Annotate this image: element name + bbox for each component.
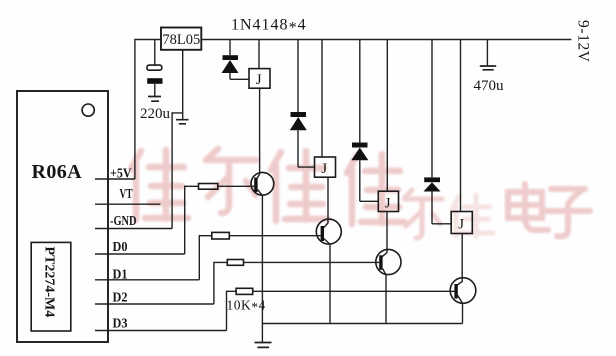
capacitor C2 470u stub xyxy=(486,40,488,67)
pin D0 wire xyxy=(95,253,185,255)
wire Q4 emitter to ground rail xyxy=(462,303,464,323)
svg-text:VT: VT xyxy=(120,187,133,202)
wire J2 to Q2 collector xyxy=(324,177,328,227)
wire 78L05 ground pin xyxy=(182,50,184,120)
pin GND wire xyxy=(95,228,172,230)
diode D2 drop wire xyxy=(297,40,299,113)
pin +5V wire xyxy=(95,178,135,180)
svg-text:J: J xyxy=(321,161,327,177)
wire J3 to Q3 collector xyxy=(382,212,387,257)
watermark glyph dian xyxy=(508,184,548,230)
svg-text:D0: D0 xyxy=(113,240,128,255)
svg-text:J: J xyxy=(256,72,262,88)
diode D2 1N4148 xyxy=(290,112,307,167)
wire 78L05 output to +5V xyxy=(135,40,161,180)
diode D4 1N4148 xyxy=(424,177,441,223)
ground symbol under 78L05 xyxy=(176,120,189,124)
wire Q1 emitter to ground rail xyxy=(261,196,263,343)
resistor R1 xyxy=(185,184,218,255)
relay J1 xyxy=(249,69,270,89)
svg-text:470u: 470u xyxy=(474,78,505,94)
wire R4 to Q4 base xyxy=(253,290,455,292)
capacitor C2 470u plates xyxy=(480,66,496,70)
svg-text:D2: D2 xyxy=(113,291,128,306)
watermark glyph le 1 xyxy=(206,149,256,213)
relay J2 xyxy=(315,157,336,177)
transistor Q3 xyxy=(376,249,401,274)
wire D4 to relay J4 xyxy=(432,223,451,225)
watermark glyph le 2 small xyxy=(404,190,442,238)
pin VT wire xyxy=(95,203,160,205)
svg-text:PT2274-M4: PT2274-M4 xyxy=(42,247,57,318)
relay J2 top pin xyxy=(321,40,323,158)
svg-text:R06A: R06A xyxy=(32,161,83,183)
wire R1 to Q1 base xyxy=(218,185,254,187)
svg-text:D3: D3 xyxy=(113,317,128,332)
PT2274-M4 chip box xyxy=(31,242,71,331)
relay J1 top pin xyxy=(258,40,260,69)
pin D2 wire xyxy=(95,303,214,305)
module mounting hole xyxy=(82,104,94,116)
relay J3 xyxy=(378,191,398,211)
ground symbol under C1 xyxy=(148,97,161,102)
receiver module R06A box xyxy=(17,91,108,342)
resistor R3 xyxy=(214,260,244,305)
wire D1 to relay J1 xyxy=(230,78,249,80)
ground rail bottom xyxy=(262,323,462,325)
transistor Q4 xyxy=(450,278,476,304)
capacitor C1 220u plates xyxy=(147,65,163,96)
watermark glyph jia 2 xyxy=(271,151,328,221)
relay J4 xyxy=(451,212,472,234)
svg-text:10K*4: 10K*4 xyxy=(227,298,266,315)
svg-text:9-12V: 9-12V xyxy=(575,20,592,63)
watermark glyph jia 4 small faint xyxy=(452,195,493,236)
svg-text:J: J xyxy=(385,195,391,211)
resistor R2 xyxy=(199,232,229,279)
watermark glyph zi xyxy=(547,189,590,236)
diode D4 drop wire xyxy=(431,40,433,178)
capacitor C1 220u stub xyxy=(154,40,156,66)
svg-text:220u: 220u xyxy=(140,106,171,122)
pin D3 wire xyxy=(95,330,227,332)
resistor R4 xyxy=(227,288,253,330)
wire J1 to Q1 collector xyxy=(257,88,260,179)
diode D1 drop wire xyxy=(229,40,231,56)
wire R2 to Q2 base xyxy=(229,235,320,237)
svg-text:J: J xyxy=(458,217,464,233)
wire D3 to relay J3 xyxy=(360,200,379,202)
svg-text:-GND: -GND xyxy=(110,214,137,229)
transistor Q1 xyxy=(251,172,274,195)
relay J4 top pin xyxy=(460,40,462,212)
diode D3 1N4148 xyxy=(351,143,368,202)
svg-text:78L05: 78L05 xyxy=(162,32,200,48)
relay J3 top pin xyxy=(386,40,388,192)
watermark glyph jia 1 xyxy=(131,150,188,220)
diode D1 1N4148 xyxy=(222,55,239,79)
transistor Q2 xyxy=(316,219,341,244)
wire Q3 emitter to ground rail xyxy=(385,275,387,324)
wire J4 to Q4 collector xyxy=(457,234,462,286)
regulator U2 78L05 box xyxy=(161,28,201,50)
watermark row (pink) xyxy=(131,149,590,238)
wire Q2 emitter to ground rail xyxy=(329,244,331,323)
wire D2 to relay J2 xyxy=(298,166,315,168)
wire R3 to Q3 base xyxy=(244,261,380,263)
wire ground branch to GND pin xyxy=(172,113,183,229)
ground symbol bottom xyxy=(255,343,272,348)
wire 9-12V supply rail xyxy=(201,39,571,41)
diode D3 drop wire xyxy=(359,40,361,143)
pin D1 wire xyxy=(95,279,199,281)
watermark glyph jia 3 xyxy=(347,154,404,224)
